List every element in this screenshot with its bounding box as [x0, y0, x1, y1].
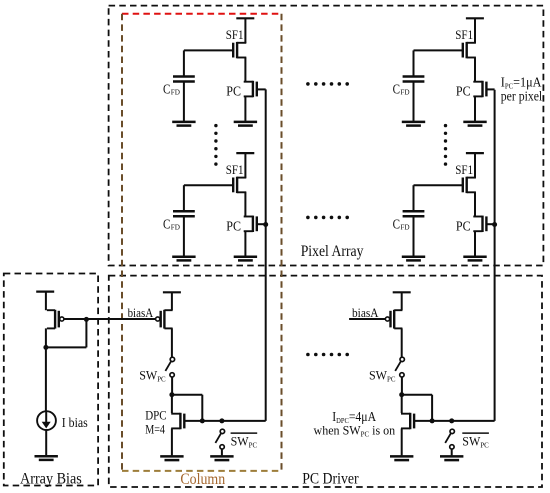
svg-text:PC: PC: [226, 218, 241, 233]
svg-text:FD: FD: [400, 222, 410, 231]
svg-text:PC: PC: [456, 218, 471, 233]
svg-text:when SWPC is on: when SWPC is on: [314, 423, 396, 439]
svg-text:C: C: [163, 218, 170, 233]
svg-text:FD: FD: [400, 88, 410, 97]
svg-text:PC: PC: [456, 84, 471, 99]
svg-text:C: C: [163, 83, 170, 98]
svg-text:C: C: [393, 218, 400, 233]
svg-text:I bias: I bias: [62, 416, 88, 431]
svg-text:SF1: SF1: [455, 162, 473, 177]
svg-text:M=4: M=4: [145, 421, 165, 436]
svg-text:FD: FD: [171, 222, 181, 231]
svg-text:PC Driver: PC Driver: [302, 470, 359, 487]
svg-text:biasA: biasA: [128, 306, 154, 320]
svg-text:biasA: biasA: [352, 306, 379, 320]
svg-text:per pixel: per pixel: [501, 89, 543, 104]
svg-text:PC: PC: [226, 84, 241, 99]
svg-text:SF1: SF1: [455, 27, 473, 42]
svg-text:C: C: [393, 83, 400, 98]
svg-text:Array Bias: Array Bias: [20, 470, 82, 487]
svg-text:Column: Column: [180, 471, 225, 488]
svg-text:Pixel Array: Pixel Array: [301, 243, 364, 260]
svg-text:FD: FD: [171, 88, 181, 97]
svg-text:SF1: SF1: [226, 27, 244, 42]
svg-text:SF1: SF1: [226, 162, 244, 177]
